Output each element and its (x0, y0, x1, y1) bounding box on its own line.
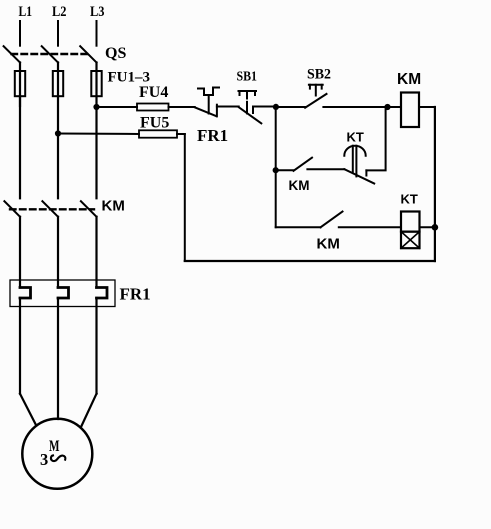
coil KM (401, 93, 419, 128)
node junction dot KT-rail (432, 224, 439, 231)
button SB2 head right tick (321, 85, 323, 89)
wire bottom rail (185, 260, 435, 262)
wire motor lead 1 diagonal (20, 394, 36, 425)
contactor KM main pole 2 blade (42, 201, 58, 217)
wire L2 tap to FU5 (58, 133, 139, 136)
fuse FU5 (139, 130, 177, 137)
coil KT x diagonal 1 (401, 232, 420, 249)
svg-text:3: 3 (40, 450, 48, 469)
svg-text:KM: KM (317, 235, 340, 252)
contact FR1 actuator stem (208, 95, 210, 114)
relay FR1 heater element 3 (97, 288, 108, 299)
svg-text:M: M (49, 438, 60, 455)
node junction dot middle row (273, 167, 279, 173)
svg-text:KT: KT (401, 192, 418, 207)
switch QS pole 2 blade (42, 46, 58, 62)
relay FR1 heater element 2 (58, 288, 69, 299)
contact KT delay stem 2 (355, 146, 357, 177)
contact FR1 right tick (216, 105, 218, 117)
button SB2 head left tick (309, 85, 311, 89)
button SB2 head bar (309, 84, 323, 86)
contact FR1 thermal symbol (198, 88, 219, 96)
node junction dot on L2 feeding FU5 (55, 130, 61, 136)
wire QS pole1 to fuse (19, 63, 21, 107)
wire heater1 to motor (19, 298, 21, 394)
wire QS pole3 to fuse (95, 63, 97, 108)
switch QS pole 1 blade (4, 46, 20, 62)
button SB2 stem (315, 85, 317, 96)
contact KT delay stem 1 (352, 146, 354, 172)
wire QS pole2 to fuse (57, 63, 59, 134)
svg-text:KM: KM (102, 197, 125, 214)
coil KT rect (401, 212, 420, 232)
switch QS linkage dashed line (12, 53, 90, 55)
wire SB1 to junction (253, 106, 276, 108)
wire heater3 to motor (95, 298, 97, 394)
coil KT x-box (401, 232, 420, 249)
svg-text:KT: KT (347, 130, 364, 145)
wire pole2 to FR1 heater (57, 217, 59, 288)
svg-text:KM: KM (289, 178, 310, 193)
wire motor lead 3 diagonal (81, 394, 97, 427)
wire junction to SB2 (276, 106, 305, 108)
wire drop from FU5 down to bottom rail (184, 134, 186, 261)
svg-text:FU4: FU4 (139, 84, 168, 101)
wire bottom row corner (276, 226, 321, 228)
wire KT contact step (366, 107, 385, 170)
fuse FU4 (137, 104, 169, 111)
contact KT right tick (365, 170, 367, 175)
svg-text:L3: L3 (90, 4, 105, 20)
svg-text:FR1: FR1 (197, 126, 228, 145)
wire L2 down to KM switch (57, 134, 59, 199)
wire pole3 to FR1 heater (95, 217, 97, 288)
svg-text:QS: QS (105, 45, 126, 62)
relay FR1 heater box (10, 280, 115, 307)
switch QS pole 3 blade (80, 46, 96, 62)
contact KT delay arc (344, 146, 365, 156)
relay FR1 heater element 1 (20, 288, 31, 299)
button SB1 blade (239, 107, 262, 123)
wire L3 tap to FU4 (97, 106, 138, 108)
motor tilde squiggle (51, 455, 65, 461)
button SB1 right tick (252, 107, 254, 114)
wire KM coil to right rail (419, 106, 435, 108)
contactor KM main pole 1 blade (4, 201, 20, 217)
svg-text:SB1: SB1 (237, 70, 258, 85)
contact KM aux blade (bottom row) (321, 212, 343, 228)
wire L1 down to KM switch (19, 96, 21, 198)
svg-text:FR1: FR1 (120, 285, 151, 304)
wire FU4 to FR1 contact (169, 106, 195, 108)
node junction dot before KM coil (384, 104, 390, 110)
button SB2 blade (305, 94, 326, 108)
wire SB2 to KM coil (323, 106, 401, 108)
wire right rail (434, 107, 436, 261)
wire bottom row right (339, 226, 401, 228)
wire L1 lead-in (19, 21, 21, 46)
svg-text:L1: L1 (19, 4, 33, 20)
contact FR1 blade (195, 107, 216, 116)
wire L3 down to KM switch (95, 107, 97, 198)
contactor KM main pole 3 blade (81, 201, 97, 217)
fuse FU3 (91, 71, 101, 96)
svg-text:L2: L2 (52, 4, 67, 20)
motor M circle (22, 419, 92, 489)
svg-text:SB2: SB2 (307, 67, 331, 83)
wire L3 lead-in (96, 21, 98, 46)
svg-text:FU5: FU5 (140, 115, 169, 132)
wire middle row left (276, 169, 294, 171)
contact KT blade (344, 169, 374, 183)
contactor KM main dashed linkage (10, 208, 94, 210)
wire FU5 right to drop (177, 133, 185, 135)
wire KT coil to rail (420, 226, 435, 228)
wire FR1 to SB1 (217, 106, 239, 108)
node junction dot SB1/SB2 (273, 104, 279, 110)
button SB1 head right tick (254, 91, 256, 95)
node junction dot on L3 feeding FU4 (93, 104, 99, 110)
wire branch down from SB junction (275, 107, 277, 227)
button SB1 head left tick (239, 91, 241, 95)
wire pole1 to FR1 heater (19, 217, 21, 288)
button SB1 stem upper (246, 91, 248, 99)
coil KT x diagonal 2 (401, 232, 420, 249)
button SB1 stem lower (246, 102, 248, 114)
fuse FU1 (15, 71, 25, 96)
wire middle row right (307, 168, 344, 170)
contact KM aux blade (middle row) (294, 158, 313, 171)
wire heater2 to motor (57, 298, 59, 419)
svg-text:KM: KM (397, 71, 421, 88)
wire L2 lead-in (57, 21, 59, 46)
button SB1 head bar (239, 90, 257, 92)
fuse FU2 (53, 71, 63, 96)
